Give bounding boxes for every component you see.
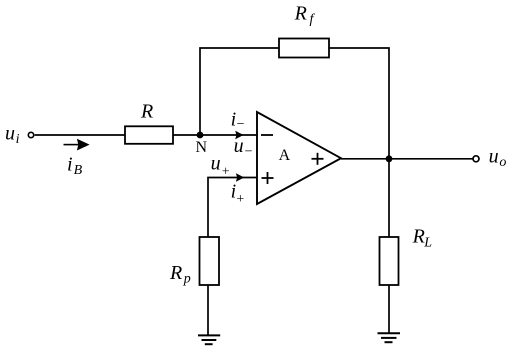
node N dot bbox=[197, 132, 204, 139]
output node dot bbox=[386, 155, 393, 162]
svg-text:R: R bbox=[169, 262, 182, 284]
svg-text:i: i bbox=[231, 180, 237, 202]
svg-text:u: u bbox=[211, 153, 221, 175]
svg-text:R: R bbox=[294, 3, 307, 25]
svg-text:−: − bbox=[245, 145, 253, 160]
svg-text:p: p bbox=[183, 272, 191, 287]
wire R_p to ground bbox=[207, 285, 209, 335]
svg-text:R: R bbox=[140, 100, 153, 122]
output wire bbox=[341, 158, 473, 160]
svg-text:B: B bbox=[74, 163, 83, 178]
resistor R_L bbox=[380, 237, 399, 285]
ground under R_p bbox=[198, 335, 220, 344]
resistor R bbox=[125, 126, 173, 144]
wire noninverting input with bend bbox=[208, 178, 257, 238]
op-amp minus input sign bbox=[261, 134, 273, 136]
wire R_f to output node bbox=[329, 48, 389, 159]
svg-text:u: u bbox=[5, 123, 15, 145]
current arrow i_B bbox=[64, 139, 90, 151]
svg-text:R: R bbox=[412, 226, 425, 248]
op-amp plus input sign bbox=[262, 172, 274, 184]
resistor R_p bbox=[200, 237, 220, 285]
arrow i_+ on wire bbox=[236, 173, 244, 182]
op-amp U1 triangle bbox=[257, 112, 341, 204]
svg-text:N: N bbox=[196, 139, 208, 156]
op-amp output plus sign bbox=[312, 153, 324, 165]
svg-text:i: i bbox=[231, 109, 237, 131]
svg-text:L: L bbox=[423, 236, 432, 251]
svg-text:i: i bbox=[67, 154, 73, 176]
arrow i_- on wire bbox=[235, 131, 243, 140]
svg-text:+: + bbox=[236, 192, 244, 207]
svg-text:+: + bbox=[222, 164, 230, 179]
output terminal circle u_o bbox=[473, 156, 479, 162]
svg-text:u: u bbox=[234, 135, 244, 157]
svg-text:o: o bbox=[499, 155, 506, 170]
wire R to op-amp inverting input bbox=[173, 134, 257, 136]
input terminal circle u_i bbox=[28, 132, 33, 137]
svg-text:i: i bbox=[16, 132, 20, 147]
resistor R_f bbox=[279, 39, 329, 58]
svg-text:u: u bbox=[489, 145, 499, 167]
wire input to resistor R bbox=[35, 134, 125, 136]
ground under R_L bbox=[378, 333, 401, 342]
svg-text:A: A bbox=[279, 147, 291, 164]
wire output node down to R_L bbox=[388, 159, 390, 237]
wire R_L to ground bbox=[388, 285, 390, 333]
feedback wire: node N up, across, down to output node bbox=[200, 48, 279, 135]
svg-text:−: − bbox=[237, 117, 245, 132]
